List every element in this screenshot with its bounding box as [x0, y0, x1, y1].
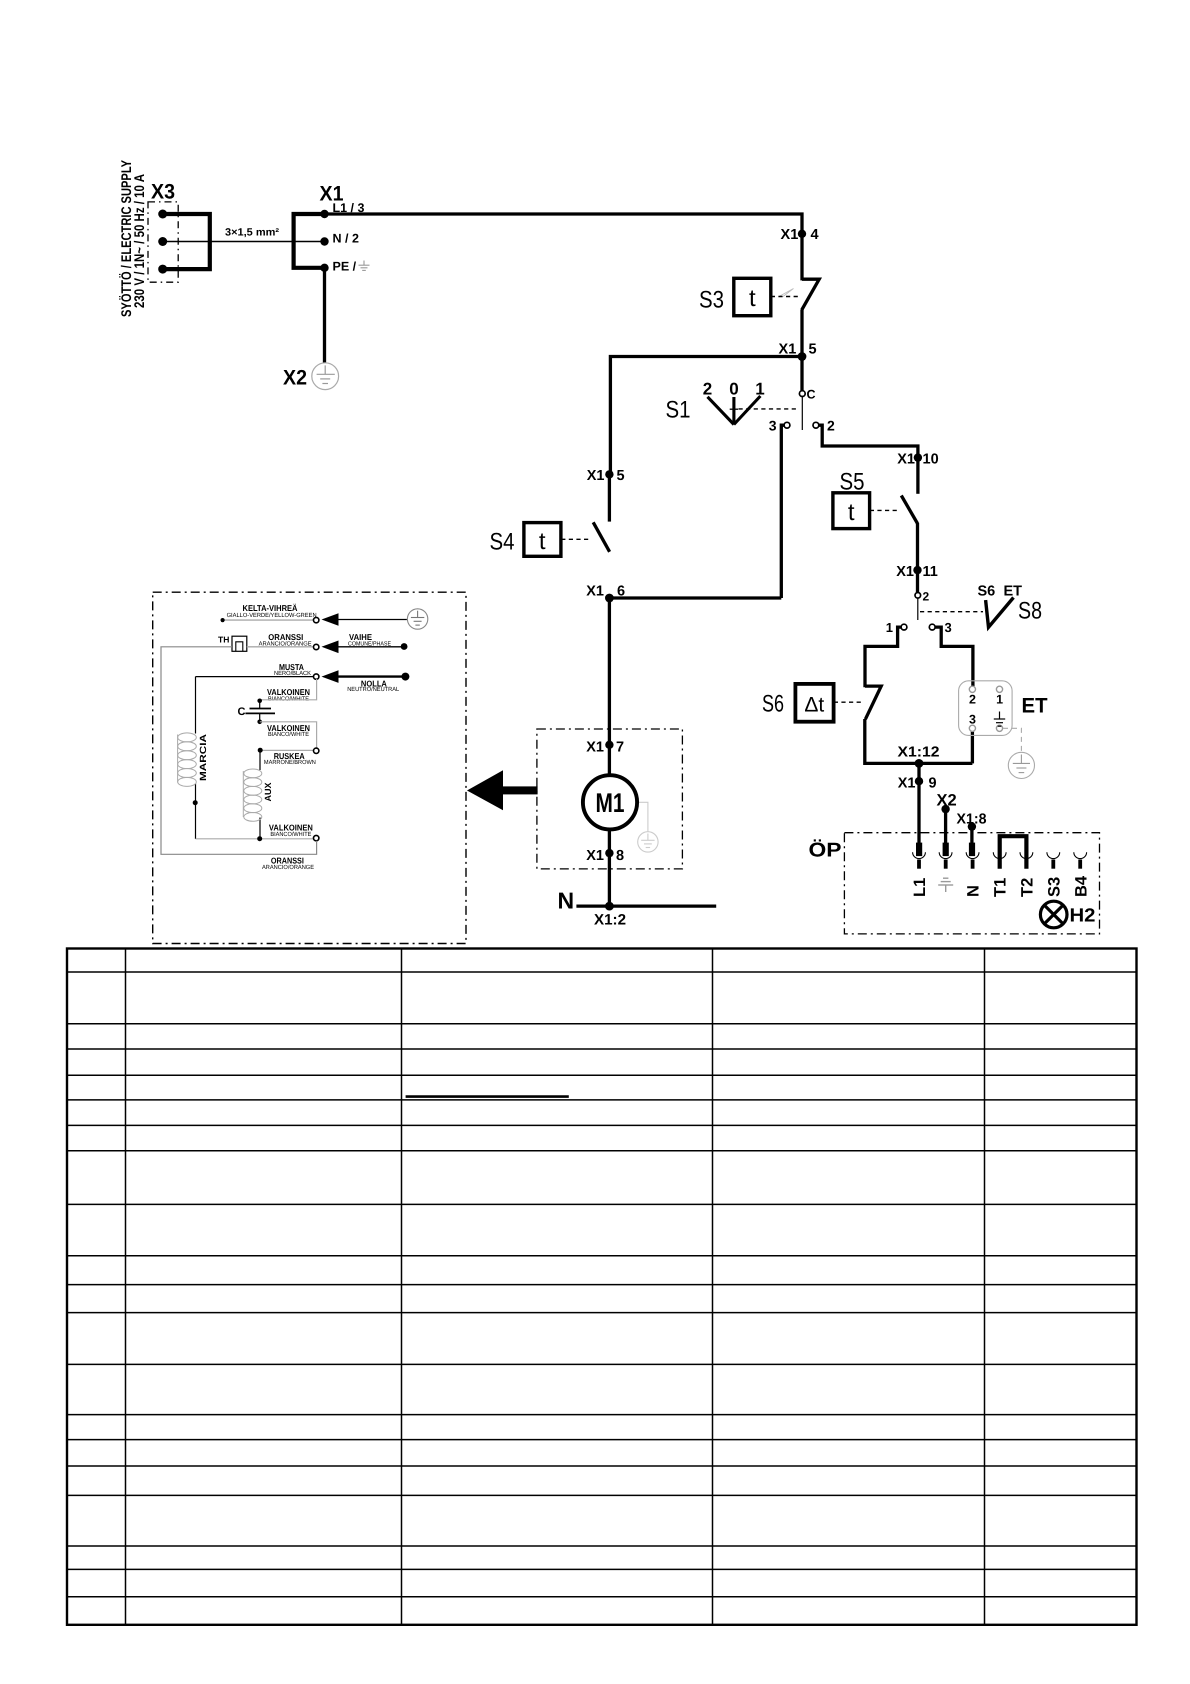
wire X2 to plug — [944, 809, 947, 845]
earth pin label glyph (rotated, gray) — [938, 878, 953, 892]
wire X1:8 to plug — [970, 827, 973, 845]
node X1:5 (right) — [779, 342, 817, 361]
svg-text:BIANCO/WHITE: BIANCO/WHITE — [268, 731, 309, 738]
svg-text:M1: M1 — [596, 788, 625, 818]
S5 dashed link — [870, 509, 900, 511]
node X1:4 — [781, 227, 819, 243]
S1 contact 2 — [813, 422, 819, 428]
svg-text:S6: S6 — [762, 691, 784, 718]
S8 common contact 2 — [915, 593, 921, 599]
svg-text:X3: X3 — [151, 181, 175, 204]
svg-text:X1: X1 — [586, 740, 604, 756]
node X1:12 — [898, 745, 940, 768]
motor M1 — [583, 775, 637, 829]
svg-text:10: 10 — [923, 452, 939, 468]
svg-text:TH: TH — [218, 635, 229, 645]
S8 dashed link — [920, 611, 983, 613]
underline mark in table — [406, 1095, 569, 1098]
wire oranssi (gray) — [247, 646, 314, 648]
svg-text:t: t — [749, 285, 756, 312]
wire: X1:6 horizontal to S1 branch — [609, 596, 781, 599]
svg-text:S5: S5 — [840, 469, 865, 496]
node X1:10 — [897, 452, 938, 468]
S8 moving blade thin — [917, 598, 919, 620]
svg-text:X1: X1 — [897, 452, 915, 468]
ground symbol X2 — [312, 363, 339, 390]
svg-text:3: 3 — [969, 713, 976, 727]
svg-text:PE /: PE / — [333, 260, 357, 274]
svg-text:1: 1 — [886, 620, 893, 635]
wire valkoinen 3 (gray) — [196, 838, 314, 840]
big arrow to winding detail — [467, 770, 538, 810]
arrow vaihe — [337, 646, 401, 648]
winding detail dash-dot box — [153, 592, 466, 943]
supply label SYOTTO / ELECTRIC SUPPLY — [118, 159, 147, 317]
node X1:6 — [586, 584, 625, 603]
svg-text:ÖP: ÖP — [809, 839, 842, 862]
svg-text:ARANCIO/ORANGE: ARANCIO/ORANGE — [262, 864, 314, 871]
svg-text:X1: X1 — [898, 776, 916, 792]
svg-text:7: 7 — [616, 740, 624, 756]
wire: contact 3 down-left branch — [781, 425, 784, 598]
wire: ET pin3 down to X1:12 line — [971, 731, 974, 764]
svg-text:BIANCO/WHITE: BIANCO/WHITE — [270, 831, 311, 838]
svg-text:BIANCO/WHITE: BIANCO/WHITE — [268, 695, 309, 702]
marcia winding stubs — [195, 677, 197, 734]
svg-text:6: 6 — [617, 584, 625, 600]
svg-text:N: N — [558, 888, 575, 914]
capacitor C — [238, 699, 275, 725]
wire: X1:4 down to S3 contact — [800, 234, 803, 281]
svg-text:MARRONE/BROWN: MARRONE/BROWN — [264, 759, 316, 766]
svg-text:X1: X1 — [781, 227, 799, 243]
svg-text:T1: T1 — [992, 878, 1010, 897]
wire capacitor to ruskea terminal (gray) — [260, 722, 317, 748]
thermal protector TH box — [232, 636, 247, 651]
switch S5 blade — [901, 496, 917, 524]
svg-text:T2: T2 — [1019, 878, 1037, 897]
wire: X1:11 to S8 common 2 — [916, 570, 919, 592]
wire X1:5 to S4 — [608, 474, 611, 521]
wire motor to N line — [608, 829, 611, 906]
svg-text:8: 8 — [616, 848, 624, 864]
svg-text:t: t — [539, 528, 546, 555]
svg-text:2: 2 — [923, 590, 930, 604]
wire: X1 side bracket — [294, 214, 325, 268]
wire: S6 down to X1:12 line — [865, 719, 973, 763]
svg-text:GIALLO-VERDE/YELLOW-GREEN: GIALLO-VERDE/YELLOW-GREEN — [227, 612, 317, 619]
wire: S5 to X1:11 — [916, 523, 919, 570]
selector S1 tick — [730, 408, 738, 410]
svg-text:9: 9 — [929, 776, 937, 792]
S1 moving blade (thin) — [801, 397, 803, 430]
OP pin stubs below arcs — [919, 860, 1080, 869]
svg-text:ET: ET — [1022, 695, 1048, 718]
svg-text:4: 4 — [811, 227, 819, 243]
coil AUX — [243, 769, 261, 821]
timer S6 contact blade — [865, 686, 881, 719]
thermostat box S3 — [734, 278, 771, 315]
svg-text:ORANSSI: ORANSSI — [268, 632, 303, 642]
inset ground symbol — [407, 609, 427, 629]
svg-text:t: t — [848, 499, 855, 526]
S6 dashed link — [834, 701, 863, 703]
terminal circle musta — [314, 674, 319, 679]
ground symbol at ET — [1008, 752, 1034, 778]
terminal circle valkoinen — [314, 835, 319, 840]
node X1:5 (left) — [587, 468, 625, 484]
oranssi return wire (gray) — [161, 647, 317, 855]
svg-text:H2: H2 — [1070, 906, 1096, 927]
svg-text:X2: X2 — [283, 367, 307, 390]
wire: X1:6 branch down to motor — [608, 598, 611, 776]
node X1:2 — [594, 902, 626, 929]
svg-text:3: 3 — [769, 418, 777, 434]
lamp H2 — [1040, 901, 1067, 928]
OP plug pins L1,earth,N (plug rectangles) — [916, 843, 975, 857]
node X1:7 — [586, 740, 624, 756]
selector S1 fan — [708, 396, 761, 425]
svg-text:X1: X1 — [586, 848, 604, 864]
svg-text:KELTA-VIHREÄ: KELTA-VIHREÄ — [243, 603, 298, 613]
switch S8 checkmark — [986, 598, 1014, 628]
wire: X3 supply bracket — [163, 214, 210, 269]
aux winding stubs — [259, 750, 261, 770]
svg-text:N: N — [965, 885, 983, 897]
wire: X1:5 down to C contact — [800, 357, 803, 391]
svg-text:C: C — [238, 706, 246, 718]
timer box S6 (delta t) — [795, 684, 833, 722]
svg-text:VAIHE: VAIHE — [349, 632, 372, 642]
svg-text:11: 11 — [923, 564, 938, 580]
table column lines — [126, 949, 985, 1625]
connector ET body — [959, 681, 1013, 736]
svg-text:X1:12: X1:12 — [898, 745, 940, 761]
X3 terminal dots — [158, 210, 167, 274]
svg-text:2: 2 — [703, 380, 712, 399]
svg-text:C: C — [807, 388, 816, 402]
table outer border — [67, 949, 1137, 1625]
wire ruskea (gray) — [260, 749, 313, 751]
arrow nolla (bold) — [337, 675, 402, 677]
motor dash-dot box — [537, 729, 683, 869]
wire: supply cable N (thin) — [163, 241, 325, 243]
svg-text:3×1,5 mm²: 3×1,5 mm² — [225, 227, 280, 239]
svg-text:2: 2 — [827, 418, 835, 434]
terminal circle ruskea — [314, 748, 319, 753]
svg-text:S6: S6 — [978, 584, 996, 600]
svg-text:S1: S1 — [666, 397, 691, 424]
switch S4 blade — [593, 522, 609, 552]
wire musta to capacitor (gray) — [261, 679, 317, 700]
OP pin labels rotated — [911, 875, 1090, 897]
svg-text:S3: S3 — [1045, 877, 1063, 897]
dot aux bottom — [257, 836, 262, 841]
selector S1 positions 2 0 1 — [703, 380, 765, 399]
svg-text:MARCIA: MARCIA — [198, 733, 208, 781]
svg-text:2: 2 — [969, 693, 976, 707]
svg-text:N / 2: N / 2 — [333, 232, 359, 246]
svg-text:1: 1 — [996, 693, 1003, 707]
X1 terminal dots L1,N,PE — [320, 210, 328, 272]
S4 dashed link — [561, 538, 591, 540]
svg-text:L1: L1 — [911, 878, 929, 897]
wire X1:12 to X1:9 — [917, 763, 920, 845]
svg-text:0: 0 — [729, 380, 738, 399]
motor gray earth tail — [637, 802, 648, 831]
svg-text:5: 5 — [809, 342, 817, 358]
node X1:9 — [898, 776, 937, 792]
earth glyph after PE — [359, 261, 370, 271]
svg-text:B4: B4 — [1072, 875, 1090, 897]
svg-text:S8: S8 — [1018, 598, 1042, 625]
svg-text:S4: S4 — [490, 529, 515, 556]
ET earth pin glyph — [994, 712, 1005, 727]
ET pins — [969, 686, 1002, 731]
S3 dashed link — [771, 296, 800, 298]
ET pin labels — [969, 693, 1003, 727]
wire: PE down to X2 — [323, 268, 326, 363]
wire: contact3 to ET pin2 — [935, 627, 973, 686]
svg-text:S3: S3 — [699, 287, 724, 314]
terminal circle kelta — [314, 617, 319, 622]
node X1:11 — [896, 564, 938, 580]
wire: neutral N line — [576, 904, 716, 907]
S1 common contact C — [799, 391, 805, 397]
wire: contact 2 to X1:10 — [819, 425, 918, 457]
connector OP dash-dot box — [844, 833, 1099, 934]
S1 dashed link — [739, 408, 800, 410]
motor gray ground symbol — [638, 832, 658, 852]
wire musta (black) — [196, 676, 314, 678]
thermostat box S4 — [524, 523, 561, 557]
node X2 (to OP) — [937, 792, 957, 814]
terminal circle oranssi — [314, 644, 319, 649]
S3 gray chevron — [779, 289, 794, 297]
svg-text:5: 5 — [617, 468, 625, 484]
svg-text:X1: X1 — [586, 584, 604, 600]
svg-text:NEUTRO/NEUTRAL: NEUTRO/NEUTRAL — [347, 686, 400, 693]
dashed earth from ET — [1003, 728, 1021, 752]
S1 contact 3 — [784, 422, 790, 428]
svg-text:230 V / 1N~ / 50 Hz / 10 A: 230 V / 1N~ / 50 Hz / 10 A — [131, 174, 147, 308]
dot on marcia line — [193, 800, 198, 805]
wire: contact1 to S6 switch — [865, 627, 901, 687]
wire: S3 to X1:5 — [800, 310, 803, 357]
svg-text:X1: X1 — [587, 468, 605, 484]
svg-text:X1: X1 — [896, 564, 914, 580]
svg-text:X1:2: X1:2 — [594, 912, 626, 929]
thermostat box S5 — [833, 493, 870, 529]
S8 contact 1 — [901, 624, 907, 630]
svg-text:AUX: AUX — [263, 783, 273, 802]
S8 contact 3 — [929, 624, 935, 630]
arrow from ground to kelta terminal — [337, 619, 407, 621]
svg-text:Δt: Δt — [804, 694, 824, 717]
svg-text:3: 3 — [945, 620, 952, 635]
node X1:8 (motor) — [586, 848, 624, 864]
dot aux top — [258, 748, 263, 753]
terminal block X3 dashed box — [148, 202, 178, 282]
wire: X1:5 horizontal to left branch — [610, 357, 802, 475]
coil MARCIA — [178, 733, 197, 787]
OP socket arcs — [913, 852, 1087, 858]
T1-T2 jumper bridge — [1000, 836, 1027, 869]
wire: X1:10 down to S5 — [916, 458, 919, 494]
parts table grid — [67, 949, 1137, 1625]
table row lines — [67, 972, 1137, 1597]
node X1:8 (to OP) — [957, 812, 987, 831]
wire: main L1 feed to X1:4 — [325, 214, 803, 234]
thermostat S3 contact blade — [802, 279, 819, 310]
dot left end — [221, 618, 225, 622]
wire kelta-vihrea (gray) — [224, 619, 314, 621]
